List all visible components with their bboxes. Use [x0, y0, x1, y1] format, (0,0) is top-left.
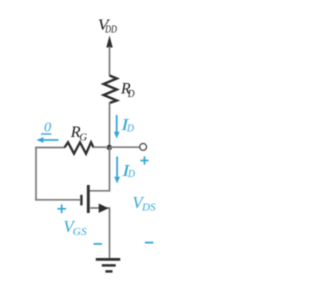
terminal open circle [140, 144, 147, 151]
node junction dot [107, 145, 112, 150]
wire supply to RD [109, 47, 111, 77]
minus sign VGS [94, 243, 103, 245]
plus sign VDS top [140, 156, 148, 164]
ground [96, 259, 120, 271]
minus sign VDS [145, 242, 154, 244]
svg-text:D: D [126, 124, 134, 135]
wire left loop top [35, 147, 65, 149]
source wire down [109, 207, 111, 259]
source wire with arrowhead [90, 207, 110, 209]
transistor Q1 channel bar [87, 185, 90, 213]
resistor RG [65, 142, 94, 153]
svg-text:G: G [79, 132, 87, 143]
plus sign VGS [57, 204, 66, 213]
gate wire [35, 199, 80, 201]
svg-text:GS: GS [73, 227, 88, 238]
wire RG to junction [94, 146, 109, 148]
source arrowhead [99, 204, 109, 213]
supply arrow [106, 36, 112, 48]
wire drain from junction down and left to channel [89, 148, 109, 191]
wire left loop vertical [35, 147, 37, 201]
resistor RD [104, 76, 117, 104]
gate current arrow (left) [36, 137, 58, 143]
underline of 0 [41, 133, 51, 135]
current arrow ID lower [114, 157, 120, 184]
svg-text:DS: DS [141, 203, 156, 214]
svg-text:D: D [127, 169, 135, 180]
current arrow ID upper [114, 115, 120, 139]
svg-text:D: D [127, 89, 135, 100]
transistor Q1 gate plate [80, 195, 82, 206]
wire junction to terminal [110, 146, 140, 148]
svg-text:DD: DD [104, 25, 117, 36]
wire RD to junction [109, 103, 111, 149]
